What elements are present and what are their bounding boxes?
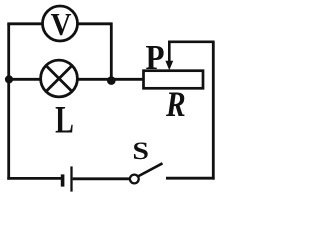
svg-text:P: P <box>145 38 164 77</box>
svg-text:V: V <box>51 7 72 43</box>
label S <box>132 137 149 165</box>
wire bottom rail left segment <box>7 177 61 180</box>
wire right vertical <box>212 42 215 180</box>
battery cell: long plate (positive) <box>70 166 72 191</box>
node B (right junction dot) <box>107 76 116 85</box>
switch S pivot <box>130 175 139 184</box>
node A (left junction dot) <box>5 75 13 83</box>
wiper arrow P <box>165 42 173 71</box>
wire bottom rail right segment <box>166 177 215 180</box>
wire left vertical <box>7 24 10 180</box>
label P <box>145 38 164 77</box>
wire right branch vertical (voltmeter to lamp-right node) <box>110 22 113 81</box>
svg-text:L: L <box>55 99 74 141</box>
svg-text:S: S <box>132 137 149 165</box>
label R <box>165 85 186 124</box>
voltmeter U1 <box>43 6 78 42</box>
lamp L <box>41 60 78 97</box>
switch S arm (open) <box>138 163 163 176</box>
label L <box>55 99 74 141</box>
battery cell: short plate (negative) <box>61 174 65 186</box>
wire bottom rail middle segment (battery to switch) <box>73 177 130 180</box>
wire top rail (battery+ loop top, through voltmeter) <box>9 24 112 25</box>
rheostat R (resistance box) <box>144 71 204 89</box>
wire lamp rail (node A to rheostat left terminal) <box>7 78 143 81</box>
wire wiper to top-right <box>168 40 215 43</box>
svg-text:R: R <box>165 85 186 124</box>
